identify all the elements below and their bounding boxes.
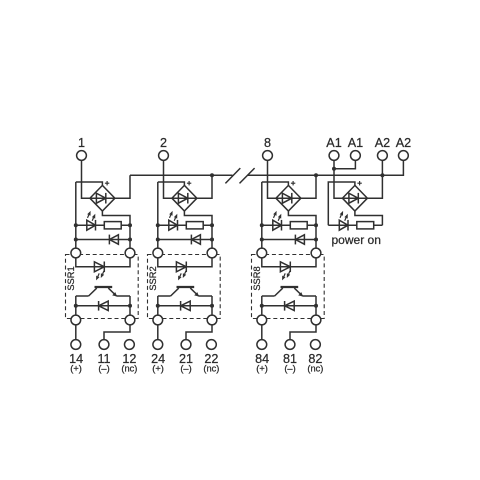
LED power-on (status indicator)	[339, 220, 348, 230]
resistor ch2	[186, 222, 203, 229]
SSR8 output pin bottom-left	[257, 315, 267, 325]
bridge rectifier B2 diamond	[172, 185, 197, 211]
right rail channel 2	[211, 225, 213, 248]
wire terminal to bridge B1 AC input (left corner)	[82, 160, 90, 198]
terminal 1 circle	[77, 151, 87, 161]
wire to terminal 21	[186, 325, 212, 340]
right rail channel 1	[129, 225, 131, 248]
phototransistor SSR1 base bar	[95, 286, 113, 288]
svg-text:SSR1: SSR1	[66, 266, 76, 290]
output protection diode SSR2	[180, 301, 182, 311]
SSR8 output pin bottom-right	[311, 315, 321, 325]
LED ch1 emission arrows	[88, 215, 89, 218]
wire bridge B8 + output (top corner) to left rail	[262, 182, 289, 185]
wire terminal to bridge B2 AC input (left corner)	[164, 160, 172, 198]
wire terminal to bridge B8 AC input (left corner)	[268, 160, 276, 198]
svg-text:1: 1	[78, 136, 85, 150]
wire bridge B1 + output (top corner) to left rail	[76, 182, 103, 185]
left rail channel 1	[75, 182, 77, 249]
wire bridge B1 AC (right corner) to common bus	[115, 175, 130, 198]
junction dots output diode row SSR8	[260, 304, 264, 308]
wire free-wheeling diode row 8	[262, 239, 316, 241]
wire output diode row SSR2	[158, 305, 212, 307]
svg-text:A1: A1	[348, 136, 363, 150]
terminal 8 circle	[263, 151, 273, 161]
bus junction dot channel 8 riser	[314, 173, 318, 177]
optocoupler LED SSR8	[280, 262, 290, 272]
svg-text:SSR2: SSR2	[148, 266, 158, 290]
wire to terminal 24	[157, 325, 159, 340]
wire output diode row SSR8	[262, 305, 316, 307]
phototransistor SSR1 emitter lead with arrow	[108, 288, 116, 296]
svg-text:(+): (+)	[256, 364, 268, 374]
phototransistor SSR1 collector lead	[89, 288, 97, 296]
SSR8 dashed module box	[252, 255, 325, 319]
SSR8 output right rail	[315, 296, 317, 315]
wire output diode row SSR1	[76, 305, 130, 307]
plus sign of bridge B2	[187, 181, 191, 185]
terminal 12 circle (nc)	[124, 340, 134, 350]
junction dots LED row ch1	[74, 223, 78, 227]
terminal 21 circle	[181, 340, 191, 350]
wire transistor row right SSR2	[199, 295, 213, 297]
wire bridge B2 AC (right corner) to common bus	[197, 175, 212, 198]
LED ch8 emission arrows	[274, 215, 275, 218]
SSR2 output right rail	[211, 296, 213, 315]
terminal 81 circle	[285, 340, 295, 350]
bridge B2 internal line	[172, 197, 197, 199]
terminal A1a circle	[329, 151, 339, 161]
terminal 24 circle	[153, 340, 163, 350]
LED ch2 (status indicator)	[169, 220, 178, 230]
wire transistor row left SSR2	[158, 295, 171, 297]
wire LED/resistor row ch1	[76, 224, 130, 226]
terminal A2a circle	[378, 151, 388, 161]
terminal 84 circle	[257, 340, 267, 350]
bus junction dot A2 / power-on riser	[380, 173, 384, 177]
phototransistor SSR2 base bar	[177, 286, 195, 288]
wire to terminal 81	[290, 325, 316, 340]
SSR2 dashed module box	[148, 255, 221, 319]
output protection diode SSR8	[284, 301, 286, 311]
svg-text:(–): (–)	[98, 364, 109, 374]
terminal 82 circle (nc)	[311, 340, 321, 350]
left rail channel 8	[261, 182, 263, 249]
wire LED/resistor row ch2	[158, 224, 212, 226]
junction dots LED row ch8	[260, 223, 264, 227]
wire A1a down to power-on bridge AC input	[334, 160, 342, 198]
SSR1 output left rail	[75, 296, 77, 315]
bridge B8 internal line	[276, 197, 301, 199]
SSR2 input pin top-right	[207, 248, 217, 258]
wire A2a down to bus	[381, 160, 383, 175]
resistor ch1	[104, 222, 121, 229]
SSR8 output left rail	[261, 296, 263, 315]
bridge rectifier B8 diamond	[276, 185, 301, 211]
svg-text:SSR8: SSR8	[252, 266, 262, 290]
opto LED SSR8 coupling arrows	[284, 273, 285, 276]
SSR8 input pin top-right	[311, 248, 321, 258]
resistor ch8	[290, 222, 307, 229]
svg-text:(+): (+)	[152, 364, 164, 374]
wire bridge B8 AC (right corner) to common bus	[301, 175, 316, 198]
free-wheeling diode ch2	[190, 235, 192, 245]
bridge power-on internal diode	[349, 193, 358, 203]
bridge power-on internal line	[342, 197, 367, 199]
wire opto LED row SSR1	[76, 258, 130, 267]
common supply bus right segment to A2	[247, 160, 403, 175]
wire free-wheeling diode row 2	[158, 239, 212, 241]
SSR1 input pin top-left	[71, 248, 81, 258]
bridge B8 internal diode	[282, 193, 291, 203]
junction dot A1 pair	[332, 167, 336, 171]
svg-text:8: 8	[264, 136, 271, 150]
LED ch1 (status indicator)	[87, 220, 96, 230]
junction dots diode row ch1	[74, 238, 78, 242]
svg-text:A1: A1	[326, 136, 341, 150]
junction dots output diode row SSR1	[74, 304, 78, 308]
optocoupler LED SSR1	[94, 262, 104, 272]
wire transistor row left SSR1	[76, 295, 89, 297]
bridge rectifier B1 diamond	[90, 185, 115, 211]
wire transistor row left SSR8	[262, 295, 275, 297]
wire to terminal 84	[261, 325, 263, 340]
terminal A1b circle	[351, 151, 361, 161]
bridge B1 internal line	[90, 197, 115, 199]
opto LED SSR2 coupling arrows	[180, 273, 181, 276]
SSR1 dashed module box	[66, 255, 139, 319]
terminal 2 circle	[159, 151, 169, 161]
svg-text:(nc): (nc)	[203, 364, 219, 374]
right rail channel 8	[315, 225, 317, 248]
SSR2 output pin bottom-left	[153, 315, 163, 325]
phototransistor SSR2 emitter lead with arrow	[190, 288, 198, 296]
junction dots diode row ch2	[156, 238, 160, 242]
optocoupler LED SSR2	[176, 262, 186, 272]
opto LED SSR1 coupling arrows	[98, 273, 99, 276]
svg-text:A2: A2	[396, 136, 411, 150]
common supply bus left segment	[130, 174, 233, 176]
LED ch8 (status indicator)	[273, 220, 282, 230]
wire bridge B2 + output (top corner) to left rail	[158, 182, 185, 185]
wire opto LED row SSR2	[158, 258, 212, 267]
svg-text:power on: power on	[332, 233, 381, 247]
plus sign of power-on bridge	[357, 181, 361, 185]
LED power-on emission arrows	[340, 215, 341, 218]
bus junction dot channel 2 riser	[210, 173, 214, 177]
phototransistor SSR8 emitter lead with arrow	[294, 288, 302, 296]
bridge rectifier power-on diamond	[342, 185, 367, 211]
svg-text:(–): (–)	[284, 364, 295, 374]
terminal 11 circle	[99, 340, 109, 350]
wire transistor row right SSR8	[303, 295, 317, 297]
phototransistor SSR8 base bar	[281, 286, 299, 288]
wire opto LED row SSR8	[262, 258, 316, 267]
wire to terminal 14	[75, 325, 77, 340]
resistor power-on	[357, 222, 374, 229]
wire to terminal 11	[104, 325, 130, 340]
SSR2 output left rail	[157, 296, 159, 315]
free-wheeling diode ch8	[294, 235, 296, 245]
phototransistor SSR2 collector lead	[171, 288, 179, 296]
svg-text:A2: A2	[375, 136, 390, 150]
junction dots LED row ch2	[156, 223, 160, 227]
wire LED/resistor row ch8	[262, 224, 316, 226]
plus sign of bridge B8	[291, 181, 295, 185]
svg-text:(–): (–)	[180, 364, 191, 374]
svg-text:(nc): (nc)	[307, 364, 323, 374]
wire transistor row right SSR1	[117, 295, 131, 297]
junction dots output diode row SSR2	[156, 304, 160, 308]
SSR1 input pin top-right	[125, 248, 135, 258]
SSR1 output pin bottom-right	[125, 315, 135, 325]
plus sign of bridge B1	[105, 181, 109, 185]
wire bridge B2 - output (bottom corner) to right rail	[184, 211, 212, 225]
LED ch2 emission arrows	[170, 215, 171, 218]
svg-text:2: 2	[160, 136, 167, 150]
SSR8 input pin top-left	[257, 248, 267, 258]
SSR2 input pin top-left	[153, 248, 163, 258]
SSR2 output pin bottom-right	[207, 315, 217, 325]
wire power-on bridge bottom corner to LED row	[355, 211, 383, 225]
terminal 14 circle	[71, 340, 81, 350]
phototransistor SSR8 collector lead	[275, 288, 283, 296]
svg-text:(+): (+)	[70, 364, 82, 374]
bus break symbol (double slash)	[225, 168, 240, 183]
wire A1b link to A1a	[334, 160, 355, 168]
bridge B1 internal diode	[96, 193, 105, 203]
free-wheeling diode ch1	[108, 235, 110, 245]
svg-text:(nc): (nc)	[121, 364, 137, 374]
wire power-on bridge right corner to bus	[367, 175, 382, 198]
wire free-wheeling diode row 1	[76, 239, 130, 241]
SSR1 output right rail	[129, 296, 131, 315]
left rail channel 2	[157, 182, 159, 249]
terminal A2b circle	[399, 151, 409, 161]
wire bridge B1 - output (bottom corner) to right rail	[102, 211, 130, 225]
terminal 22 circle (nc)	[207, 340, 217, 350]
wire bridge B8 - output (bottom corner) to right rail	[288, 211, 316, 225]
wire power-on bridge + output (top corner) to left rail	[328, 182, 355, 225]
output protection diode SSR1	[98, 301, 100, 311]
SSR1 output pin bottom-left	[71, 315, 81, 325]
junction dots diode row ch8	[260, 238, 264, 242]
bridge B2 internal diode	[178, 193, 187, 203]
wire LED/resistor row power-on	[328, 224, 382, 226]
